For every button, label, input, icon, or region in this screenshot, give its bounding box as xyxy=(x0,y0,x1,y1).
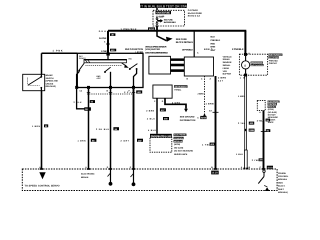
wire lever out3 xyxy=(133,89,135,169)
terminal box at edge corner xyxy=(267,166,273,170)
svg-text:8A-10-0 FUSE: 8A-10-0 FUSE xyxy=(188,12,203,15)
wire brake feed horizontal xyxy=(42,52,78,54)
transmission dashed box xyxy=(150,134,172,152)
down arrow ground dist xyxy=(184,109,188,112)
svg-text:S210: S210 xyxy=(201,117,207,120)
svg-text:4 BLK: 4 BLK xyxy=(148,129,156,132)
svg-text:PRINTED: PRINTED xyxy=(269,59,279,62)
svg-text:2 BRN: 2 BRN xyxy=(146,110,154,113)
svg-text:ELECTRONIC: ELECTRONIC xyxy=(268,100,280,103)
svg-text:DISTRIBUTION: DISTRIBUTION xyxy=(180,119,196,122)
circuit box 400 xyxy=(210,143,215,147)
svg-text:1 YEL: 1 YEL xyxy=(202,144,211,147)
wire fuse drop top xyxy=(156,8,158,10)
label speedo inside cluster xyxy=(251,61,264,66)
svg-text:ELECTRONIC: ELECTRONIC xyxy=(81,173,95,176)
labels on buffer output xyxy=(202,76,226,146)
contacts left xyxy=(77,63,85,88)
svg-text:SIGNAL: SIGNAL xyxy=(223,64,232,67)
ECM dashed box xyxy=(257,101,265,111)
wire brake feed drop xyxy=(41,53,43,74)
svg-text:SEE GROUND: SEE GROUND xyxy=(180,116,195,119)
svg-text:4 BLK: 4 BLK xyxy=(147,118,155,121)
svg-text:RELEASE): RELEASE) xyxy=(46,85,56,88)
svg-text:PANEL: PANEL xyxy=(174,88,182,91)
svg-text:2 BRN: 2 BRN xyxy=(198,93,205,96)
splice box S210 xyxy=(148,27,158,32)
circuit box on junction xyxy=(84,107,91,110)
bottom dashed box cruise module xyxy=(22,169,277,191)
dashed wire to splice xyxy=(204,76,206,115)
label VSS buffer note xyxy=(145,46,169,55)
wire brake down xyxy=(41,91,43,169)
circuit box 39 xyxy=(110,33,115,36)
svg-text:2 GRY: 2 GRY xyxy=(121,139,130,142)
pin letters at bottom box edge xyxy=(39,166,261,169)
pin E stem and dot xyxy=(131,169,136,186)
svg-text:(ECM): (ECM) xyxy=(174,143,180,146)
wire twisted pair xyxy=(244,150,247,169)
note text right of fuse block xyxy=(188,9,203,17)
svg-text:400: 400 xyxy=(268,167,274,170)
fuse F1 symbol xyxy=(156,17,158,26)
svg-text:1 B: 1 B xyxy=(240,76,245,79)
svg-text:LEVER: LEVER xyxy=(136,51,144,54)
ground triangle left xyxy=(39,172,45,179)
labels on left drop xyxy=(99,30,108,53)
svg-text:BRN: BRN xyxy=(204,48,210,51)
wire inst down1 xyxy=(156,98,158,134)
label GAUGES FUSE 10 AMP xyxy=(156,11,172,19)
svg-text:2 ORN: 2 ORN xyxy=(172,101,180,104)
svg-text:HOT IN RUN, BULB TEST OR START: HOT IN RUN, BULB TEST OR START xyxy=(136,4,190,8)
svg-text:W/O GAUGES: W/O GAUGES xyxy=(251,64,264,67)
label see fuse details lower xyxy=(176,38,193,44)
svg-text:COAST: COAST xyxy=(79,57,86,60)
svg-text:BLOCK DETAILS: BLOCK DETAILS xyxy=(176,41,193,44)
header bar HOT IN RUN BULB TEST OR START xyxy=(136,4,190,9)
terminal box A10 xyxy=(211,171,219,175)
svg-text:BRAKE: BRAKE xyxy=(81,176,89,179)
svg-text:VEHICLE: VEHICLE xyxy=(223,55,233,58)
label see ground distribution xyxy=(180,116,196,122)
svg-text:BUFFER: BUFFER xyxy=(223,73,232,76)
svg-text:2 DK BLU: 2 DK BLU xyxy=(96,128,109,131)
svg-text:2 BRN: 2 BRN xyxy=(218,76,226,79)
arrow to details xyxy=(166,37,173,42)
svg-text:2 YEL: 2 YEL xyxy=(238,122,246,125)
svg-text:2 YEL: 2 YEL xyxy=(257,119,264,122)
svg-text:1 BRN: 1 BRN xyxy=(32,125,40,128)
svg-text:A10: A10 xyxy=(212,172,218,175)
arrow see fuse block details xyxy=(158,18,177,24)
wire lever out2 xyxy=(110,89,112,169)
svg-text:(SPEED AND: (SPEED AND xyxy=(46,80,59,83)
svg-text:MODULE: MODULE xyxy=(278,178,288,181)
label ECM right xyxy=(268,100,280,124)
terminal square bottom xyxy=(244,74,247,77)
slider resistor xyxy=(84,60,127,66)
wire ECM down xyxy=(263,111,265,169)
pin letters below lever xyxy=(80,90,131,93)
svg-text:WHT: WHT xyxy=(211,49,217,52)
svg-text:DO NOT MEASURE: DO NOT MEASURE xyxy=(174,150,194,153)
wire lever out1 xyxy=(88,89,90,169)
svg-text:DO NOT: DO NOT xyxy=(268,113,277,116)
svg-text:CONTROL: CONTROL xyxy=(278,175,289,178)
VSS buffer box left xyxy=(149,56,171,74)
svg-text:2 BLK: 2 BLK xyxy=(74,101,82,104)
circuit box 400b xyxy=(249,122,254,126)
svg-text:1 PNK/BLK: 1 PNK/BLK xyxy=(121,28,137,31)
contacts right xyxy=(129,64,138,88)
VSS buffer box right xyxy=(184,57,213,76)
svg-text:CRUISE: CRUISE xyxy=(278,172,286,175)
svg-text:CONTROL: CONTROL xyxy=(268,103,278,106)
svg-text:(W/ 4L60): (W/ 4L60) xyxy=(174,146,184,149)
svg-text:S210: S210 xyxy=(149,28,155,31)
terminals ECM xyxy=(259,111,264,114)
svg-text:VEHICLE SPEED SENSOR: VEHICLE SPEED SENSOR xyxy=(145,46,167,49)
multi-function lever box xyxy=(77,53,143,87)
terminal square top xyxy=(244,53,247,56)
svg-text:(VSS) BUFFER: (VSS) BUFFER xyxy=(145,48,160,51)
terminals instrument panel xyxy=(154,100,164,103)
wire buffer output right xyxy=(215,76,217,169)
svg-text:TO SPEED CONTROL SERVO: TO SPEED CONTROL SERVO xyxy=(25,185,60,188)
circuit box on out1 upper xyxy=(90,100,95,103)
svg-text:VSS: VSS xyxy=(223,70,228,73)
svg-text:SWITCH: SWITCH xyxy=(46,77,54,80)
svg-text:437: 437 xyxy=(218,80,224,83)
speedometer gauge xyxy=(242,56,250,74)
svg-text:0.8 A: 0.8 A xyxy=(99,30,106,33)
pin D stem and dot xyxy=(108,169,113,186)
wire diagonal to arrow xyxy=(157,31,167,41)
svg-text:39 PNK/BLK: 39 PNK/BLK xyxy=(182,48,193,51)
connector tick xyxy=(213,111,219,113)
label electronic brake xyxy=(81,173,95,179)
svg-text:DO NOT MEASURE RESISTANCE: DO NOT MEASURE RESISTANCE xyxy=(145,51,169,54)
connector tick ECM lower xyxy=(261,131,267,133)
brake switch contacts xyxy=(28,74,43,91)
svg-text:SENSOR: SENSOR xyxy=(223,61,232,64)
fuse block dashed box xyxy=(153,10,185,26)
svg-text:1 BLK: 1 BLK xyxy=(236,153,243,156)
connector ticks xyxy=(87,91,135,93)
label instrument cluster xyxy=(268,54,282,66)
label ECM mid xyxy=(174,134,194,156)
svg-text:ELECTRONIC: ELECTRONIC xyxy=(174,134,186,137)
connector bars xyxy=(171,58,185,72)
svg-text:FROM: FROM xyxy=(223,67,229,70)
svg-text:SEE FUSE: SEE FUSE xyxy=(164,18,174,21)
svg-text:BLK: BLK xyxy=(211,36,216,39)
svg-text:GAUGES FUSE: GAUGES FUSE xyxy=(156,12,170,15)
wire main feed horizontal xyxy=(108,30,246,32)
wiper arrow xyxy=(122,63,129,68)
switch mid xyxy=(104,67,111,87)
svg-text:0.8 PNK: 0.8 PNK xyxy=(99,37,107,40)
terminal squares bottom lever xyxy=(75,86,135,89)
wire feed drop left xyxy=(107,31,109,55)
svg-text:RESISTANCE: RESISTANCE xyxy=(174,153,188,156)
svg-text:PNK/BLK: PNK/BLK xyxy=(211,39,221,42)
svg-text:SHIFT: SHIFT xyxy=(278,188,285,191)
instrument cluster dashed box xyxy=(239,54,267,75)
svg-text:S: S xyxy=(244,64,246,67)
wire drop to buffer box xyxy=(193,31,195,57)
svg-text:(W/ 4L60): (W/ 4L60) xyxy=(268,111,277,114)
wire entry inner xyxy=(107,56,109,60)
svg-text:ELECT.: ELECT. xyxy=(278,185,286,188)
wire cluster down xyxy=(244,77,246,151)
svg-text:CIRCUIT: CIRCUIT xyxy=(269,62,278,65)
wire inst L right xyxy=(165,98,186,109)
label VSS signal left xyxy=(223,55,233,75)
svg-text:BRAKE: BRAKE xyxy=(46,74,54,77)
labels inside lever box xyxy=(79,55,132,80)
cruise switch right xyxy=(258,170,269,191)
splice dot xyxy=(107,43,110,46)
svg-text:INSTRUMENT: INSTRUMENT xyxy=(269,54,283,57)
svg-text:MODULE: MODULE xyxy=(174,140,183,143)
terminals below buffer xyxy=(187,78,212,81)
svg-text:1 PNK: 1 PNK xyxy=(53,50,63,53)
circuit box 420 xyxy=(110,49,116,52)
svg-text:BRN: BRN xyxy=(211,46,216,49)
wire lever left L xyxy=(77,89,89,109)
label cruise module xyxy=(278,172,289,194)
connector dashed line below lever xyxy=(87,93,135,95)
terminal entry square xyxy=(106,52,109,55)
bottom box terminal ticks xyxy=(40,168,43,170)
svg-text:MEASURE: MEASURE xyxy=(268,116,279,119)
wire feed drop right xyxy=(244,31,246,53)
svg-text:1 BRN: 1 BRN xyxy=(206,103,214,106)
instrument panel box xyxy=(153,85,172,98)
svg-text:CRUISE: CRUISE xyxy=(46,82,54,85)
svg-text:8A-81-2 C2: 8A-81-2 C2 xyxy=(188,15,201,18)
pair terminal marks xyxy=(243,168,245,170)
svg-text:S388: S388 xyxy=(249,129,254,132)
labels on cluster wire xyxy=(238,76,246,124)
wire fuse drop bottom xyxy=(156,26,158,31)
splice S210 lower xyxy=(197,114,207,119)
svg-text:CLUSTER: CLUSTER xyxy=(269,56,279,59)
splice S388 xyxy=(244,129,254,133)
svg-text:MODULE: MODULE xyxy=(268,106,277,109)
svg-text:MULTI-FUNCTION: MULTI-FUNCTION xyxy=(125,48,143,51)
svg-text:BLOCK DETAILS: BLOCK DETAILS xyxy=(164,21,177,24)
note text mid right wire colors xyxy=(211,36,221,52)
circuit box 84 xyxy=(266,119,271,122)
svg-text:RED: RED xyxy=(211,42,216,45)
label brake switch xyxy=(46,74,59,88)
svg-text:SPEED: SPEED xyxy=(223,58,231,61)
svg-text:MODULE): MODULE) xyxy=(278,191,288,194)
svg-text:CONTROL: CONTROL xyxy=(174,137,184,140)
svg-text:INSTRUMENT: INSTRUMENT xyxy=(174,85,187,88)
label multi-function lever xyxy=(125,48,143,54)
svg-text:(ECM): (ECM) xyxy=(268,108,274,111)
svg-text:ACC: ACC xyxy=(97,77,102,80)
svg-text:C4 PAGE: C4 PAGE xyxy=(188,9,199,12)
svg-text:1 BRN: 1 BRN xyxy=(78,139,86,142)
svg-text:(W/O: (W/O xyxy=(278,181,283,184)
svg-text:PPL: PPL xyxy=(124,91,132,94)
svg-text:1 BRN: 1 BRN xyxy=(238,95,245,98)
svg-text:2 PNK/BLK: 2 PNK/BLK xyxy=(232,48,244,51)
label instrument panel xyxy=(174,85,188,91)
brake switch box xyxy=(23,74,45,90)
